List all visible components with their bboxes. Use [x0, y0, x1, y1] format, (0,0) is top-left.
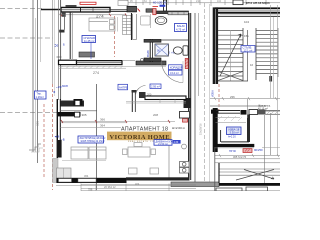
lower stair diagonals — [236, 170, 274, 181]
SW balcony floor — [57, 168, 72, 183]
hallway cupboard — [141, 16, 151, 25]
bedroom window bar A — [61, 7, 110, 12]
stair mid landing line — [247, 30, 249, 81]
hallway blue labels stacked — [169, 65, 183, 75]
window rect above top-left — [118, 1, 128, 6]
svg-text:274: 274 — [93, 71, 99, 75]
svg-text:h=2.20: h=2.20 — [228, 135, 236, 138]
bottom slab bar gray — [171, 182, 219, 187]
closet right column — [133, 14, 137, 40]
living west wall upper — [57, 99, 60, 158]
staircase flight 1 treads — [218, 31, 243, 77]
red marks on pier — [138, 9, 141, 12]
stairwell wall vertical upper — [213, 7, 218, 84]
axis dashed line top-left — [0, 8, 42, 10]
kitchen circle fixture — [182, 144, 187, 149]
axis dashed line lower-left — [0, 112, 57, 114]
svg-text:236: 236 — [230, 95, 235, 99]
svg-text:ЕТ.3 АП.18 М100: ЕТ.3 АП.18 М100 — [246, 1, 270, 5]
unit right wall — [189, 13, 191, 180]
wardrobe closet — [123, 16, 132, 35]
kitchen lower bar — [58, 112, 81, 116]
kitchen appliances bottom right — [180, 162, 190, 174]
SW balcony wall dark — [57, 140, 62, 158]
svg-text:ИЗБА: ИЗБА — [211, 90, 215, 97]
counter front line — [60, 110, 97, 112]
top dimension line left — [59, 14, 126, 16]
svg-text:364: 364 — [100, 124, 105, 128]
svg-text:11.45 m²: 11.45 m² — [84, 39, 95, 43]
right mid dimension row — [210, 97, 280, 100]
far right vertical lines — [270, 5, 272, 98]
svg-text:3.30 m²: 3.30 m² — [230, 131, 239, 135]
svg-text:21.50 m²: 21.50 m² — [158, 143, 168, 146]
stove block — [74, 99, 83, 106]
red hatch segment right wall lower — [183, 119, 188, 123]
lines above lower-right room — [210, 105, 266, 107]
wc bottom wall — [144, 58, 161, 61]
lower-right room label — [227, 127, 242, 135]
red dashed axis x52.5 — [52, 84, 54, 190]
svg-text:3.12 m²: 3.12 m² — [170, 71, 179, 75]
corridor lines right of unit — [194, 13, 196, 183]
bottom wall right part — [126, 177, 190, 180]
flight2 stringer — [255, 28, 257, 80]
bed side line — [117, 17, 119, 32]
shower square — [155, 44, 169, 56]
gray vertical pair x52 upper — [52, 0, 54, 84]
red hatch pier left bathroom — [153, 9, 156, 15]
wc room left wall — [150, 39, 152, 62]
lower-right room interior lines — [216, 118, 247, 123]
entry door arc — [135, 86, 145, 97]
elevator X cross — [218, 71, 243, 80]
lower-right room bottom thick walls — [215, 130, 254, 148]
svg-text:60 120 45: 60 120 45 — [153, 1, 167, 5]
bedroom east wall — [131, 13, 133, 40]
bathroom left upper wall vertical — [164, 0, 167, 11]
bathroom label blue box — [175, 24, 187, 32]
svg-text:404: 404 — [135, 182, 140, 186]
svg-text:366: 366 — [100, 118, 105, 122]
short dark vertical above pier — [126, 0, 128, 6]
wall B door gap line — [122, 60, 135, 62]
bedroom west wall — [70, 12, 72, 59]
svg-text:104: 104 — [244, 20, 249, 24]
top dimension line full — [126, 0, 280, 6]
axis dashed line mid-left — [0, 37, 53, 39]
svg-text:2.60: 2.60 — [174, 141, 179, 144]
wall segment to bathroom — [146, 9, 156, 12]
dark line y16.4 — [218, 15, 280, 17]
svg-text:208: 208 — [153, 113, 158, 117]
stair arrow flight1 — [220, 34, 241, 76]
red detail rect top — [80, 2, 96, 4]
terrace/west wall double line — [57, 0, 59, 100]
bedroom label blue box — [82, 36, 96, 44]
appliance white box right kitchen — [180, 112, 190, 119]
bottom-right window boxes — [216, 188, 242, 191]
blue label hall small 2 — [150, 84, 161, 89]
blue solid marker — [160, 5, 166, 7]
stairwell wall vertical lower-room — [213, 108, 218, 152]
svg-text:2.95 m²: 2.95 m² — [151, 85, 160, 89]
living floor line — [62, 159, 106, 161]
red dashed axis x44 — [43, 104, 45, 178]
svg-text:АНТРЕ: АНТРЕ — [119, 85, 128, 89]
small dark lintel above — [66, 5, 77, 7]
white square in lower bar — [75, 112, 80, 117]
svg-text:200: 200 — [147, 93, 152, 97]
bathroom upper: mirror cabinet band — [168, 12, 189, 15]
svg-text:85x85: 85x85 — [147, 50, 150, 57]
sofa group living — [71, 147, 106, 159]
terrace corner top — [57, 56, 62, 58]
svg-text:15x: 15x — [244, 34, 249, 38]
wc top wall — [144, 39, 161, 42]
closet wall vertical entry — [132, 90, 137, 112]
svg-text:12.1 m²: 12.1 m² — [244, 49, 253, 53]
section line vertical x96 — [96, 84, 98, 190]
vertical wall line x219 lower — [218, 163, 220, 183]
thin line below bar2 — [220, 14, 280, 16]
bath door arc — [162, 61, 184, 83]
wall B left segment — [59, 60, 123, 64]
svg-text:◄Ф: ◄Ф — [54, 135, 60, 139]
svg-text:60/8: 60/8 — [62, 84, 68, 88]
red hatch marks right wall upper — [185, 59, 188, 68]
svg-text:210: 210 — [196, 0, 201, 3]
svg-text:364: 364 — [84, 174, 89, 178]
svg-text:42.15 m²: 42.15 m² — [258, 107, 268, 110]
terrace label blue box — [35, 91, 47, 99]
corridor wall (entry) — [139, 92, 186, 100]
leader line from bedroom label — [90, 43, 92, 60]
svg-text:90/250: 90/250 — [254, 148, 263, 152]
kitchen counter top dark — [61, 101, 85, 107]
living room label blue box — [154, 140, 181, 146]
dark corner block below bar A left — [62, 12, 66, 17]
red marks top — [153, 6, 159, 8]
white box in counter — [75, 101, 80, 106]
hall floor lines — [126, 100, 186, 104]
blue label hall small 1 — [118, 84, 128, 90]
svg-text:1.26m²: 1.26m² — [36, 95, 44, 99]
wide blue label box bottom-left — [78, 136, 106, 143]
wall double line right of window — [110, 9, 127, 11]
svg-text:15x28/16: 15x28/16 — [199, 123, 203, 135]
wall B right hatched segment — [136, 61, 166, 65]
hatch band between bars — [215, 10, 280, 12]
svg-text:КОРИДОР: КОРИДОР — [170, 65, 183, 69]
stair landing bottom line — [218, 80, 248, 82]
red dashed axis bedroom x114.5 — [114, 16, 116, 57]
door block top-right — [233, 0, 243, 5]
SW balcony slab — [53, 159, 59, 183]
dark shaft block right wall — [184, 98, 192, 108]
svg-text:ЖИЛ.ПЛОЩ 42.15m²: ЖИЛ.ПЛОЩ 42.15m² — [81, 140, 105, 143]
interior hatch lower-right room — [218, 116, 242, 121]
terrace door pier — [59, 30, 64, 33]
stair label blue box — [241, 46, 255, 53]
bathroom top wall — [156, 11, 189, 14]
red dashed axis x219 — [218, 84, 220, 111]
outer wall top-right bar1 — [215, 7, 280, 9]
svg-text:305 h=2.76: 305 h=2.76 — [233, 155, 247, 159]
toilet — [173, 46, 188, 55]
right top dim vertical between walls — [247, 99, 249, 118]
floor edge hatch line under wall B — [58, 66, 166, 69]
outer wall top-right bar2 — [218, 12, 280, 14]
svg-text:Б: Б — [63, 43, 65, 47]
victoria home tan band — [107, 132, 172, 141]
terrace door glazing line — [63, 15, 65, 30]
right lower dimension rows — [215, 154, 280, 163]
svg-text:16: 16 — [250, 63, 254, 67]
bench dark at bed foot — [79, 52, 95, 57]
svg-text:20 364 12: 20 364 12 — [104, 185, 116, 189]
svg-text:Н=2.60 m: Н=2.60 m — [172, 126, 186, 130]
svg-text:ПР 90: ПР 90 — [229, 150, 237, 153]
top-left wall thin segment — [41, 9, 61, 11]
svg-text:104: 104 — [217, 0, 222, 3]
balcony edge vertical lines left — [32, 0, 34, 152]
stair stringer vertical — [242, 28, 244, 81]
red block below room — [243, 149, 252, 153]
bottom wall with windows — [57, 178, 127, 183]
dimension rows mid — [60, 121, 175, 127]
bottom-right thick bar — [219, 183, 280, 186]
svg-text:305: 305 — [82, 113, 87, 117]
dining table — [123, 143, 159, 175]
left step detail — [29, 144, 41, 150]
lower-right room right wall — [247, 115, 250, 143]
bottom dimension lines — [56, 184, 280, 192]
door pivot circle — [140, 58, 143, 61]
lower stair flight bottom-right — [219, 169, 280, 175]
lower-right room top wall — [211, 110, 247, 115]
svg-text:4.75 m²: 4.75 m² — [176, 27, 185, 31]
divider line living x169 — [168, 146, 170, 178]
wall pier hatched — [127, 6, 137, 12]
window in top wall right — [249, 110, 258, 115]
wall right of window — [258, 110, 266, 115]
svg-text:305: 305 — [36, 121, 40, 126]
sink oval — [155, 17, 167, 25]
staircase flight 2 treads — [256, 31, 278, 74]
svg-text:788: 788 — [88, 187, 93, 191]
bed — [89, 18, 115, 31]
red hatch segment right wall upper — [185, 59, 188, 69]
